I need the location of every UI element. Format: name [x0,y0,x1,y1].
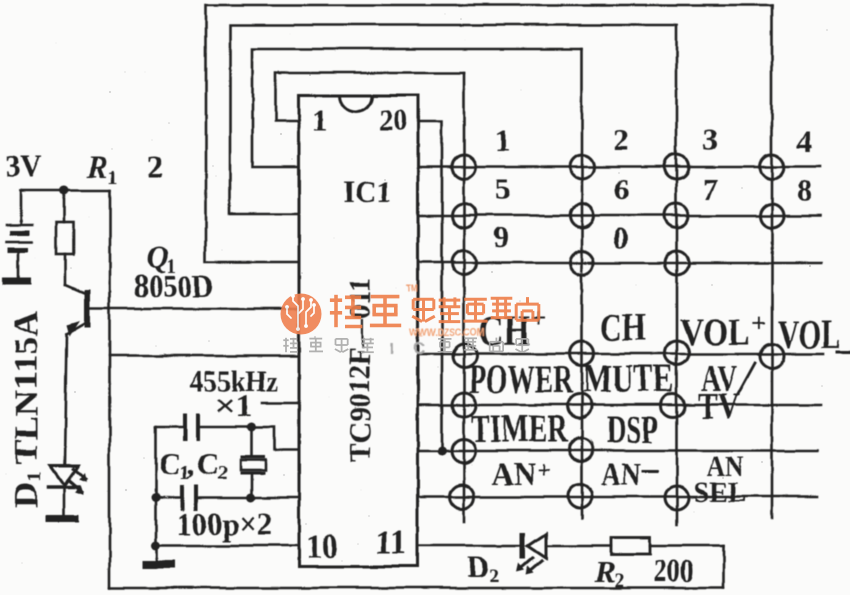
svg-text:R: R [593,553,615,588]
svg-text:3V: 3V [5,148,42,184]
svg-text:1: 1 [311,102,327,137]
svg-text:I: I [388,338,393,357]
svg-text:5: 5 [494,171,510,206]
svg-text:0: 0 [612,219,628,254]
svg-text:AN: AN [600,456,640,492]
svg-text:200: 200 [653,552,693,588]
svg-text:D: D [467,548,489,583]
svg-text:SEL: SEL [693,475,746,508]
svg-text:8050D: 8050D [133,267,213,303]
svg-text:2: 2 [146,147,162,183]
svg-text:TM: TM [405,284,417,293]
svg-text:C: C [412,338,424,357]
svg-text:11: 11 [374,522,406,561]
svg-text:DSP: DSP [606,406,658,451]
svg-text:8: 8 [796,172,812,207]
svg-text:2: 2 [613,121,629,156]
svg-text:WWW.DZSC.COM: WWW.DZSC.COM [409,326,484,338]
svg-text:6: 6 [613,171,629,206]
svg-text:AN: AN [491,456,535,492]
svg-text:,: , [186,445,194,480]
svg-text:1: 1 [107,166,117,188]
svg-text:2: 2 [613,569,623,591]
svg-text:TV: TV [697,385,739,427]
svg-text:20: 20 [378,101,406,136]
svg-text:CH: CH [600,306,645,349]
svg-text:4: 4 [796,123,812,158]
svg-text:C: C [158,445,180,480]
svg-text:+: + [751,308,766,337]
svg-text:MUTE: MUTE [582,355,673,400]
svg-text:2: 2 [489,564,499,586]
svg-text:VOL: VOL [679,310,749,353]
svg-text:3: 3 [702,121,718,156]
svg-text:R: R [85,148,107,184]
svg-text:100p×2: 100p×2 [176,505,271,541]
svg-text:2: 2 [217,461,227,483]
svg-text:IC1: IC1 [342,173,391,208]
svg-text:C: C [196,445,218,480]
svg-text:1: 1 [494,122,510,157]
svg-text:+: + [536,457,550,483]
svg-text:×1: ×1 [214,386,252,422]
svg-text:TIMER: TIMER [470,405,568,450]
svg-text:10: 10 [305,526,337,565]
svg-text:VOL: VOL [777,311,839,356]
svg-text:TC9012F—011: TC9012F—011 [341,277,376,461]
svg-text:7: 7 [702,171,718,206]
svg-text:POWER: POWER [468,356,573,401]
svg-text:9: 9 [493,219,509,254]
